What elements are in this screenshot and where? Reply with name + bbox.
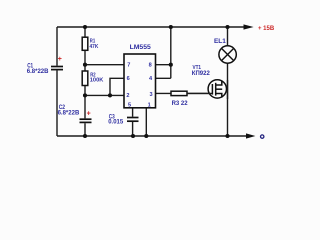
svg-text:VT1: VT1 (193, 65, 202, 71)
svg-text:6.8*22В: 6.8*22В (27, 69, 49, 75)
svg-text:+: + (87, 111, 91, 118)
svg-text:+: + (58, 56, 62, 63)
svg-text:5: 5 (128, 102, 131, 108)
svg-text:47K: 47K (90, 44, 99, 50)
svg-text:2: 2 (126, 93, 129, 99)
svg-text:8: 8 (149, 63, 152, 69)
svg-text:100K: 100K (90, 78, 104, 84)
svg-text:6: 6 (127, 76, 130, 82)
svg-text:6.8*22В: 6.8*22В (58, 110, 80, 116)
svg-text:3: 3 (150, 92, 153, 98)
svg-text:R3 22: R3 22 (172, 101, 189, 107)
svg-text:7: 7 (127, 63, 130, 69)
svg-text:+ 15В: + 15В (258, 26, 275, 32)
svg-text:0.015: 0.015 (108, 119, 124, 125)
svg-text:LM555: LM555 (130, 44, 151, 51)
svg-text:1: 1 (148, 102, 151, 108)
svg-text:КП922: КП922 (192, 71, 211, 77)
svg-text:EL1: EL1 (214, 39, 226, 45)
